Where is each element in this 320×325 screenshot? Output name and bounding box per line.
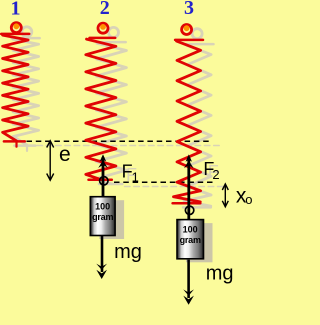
shadow spring 1 bbox=[22, 27, 32, 37]
mass 3 (100 gram) bbox=[177, 220, 204, 259]
x0 extension arrow bbox=[222, 184, 228, 207]
spring 3 coil bbox=[174, 41, 201, 202]
dashed line 2 (spring 2 bottom level) bbox=[114, 181, 216, 183]
F2 arrowhead bbox=[186, 154, 192, 161]
spring 1 bottom bar bbox=[4, 140, 25, 143]
spring 2 hook bbox=[100, 177, 108, 185]
mg arrow 3 head bbox=[183, 296, 194, 305]
spring 1 stub bbox=[15, 141, 17, 146]
spring 3 bbox=[173, 25, 203, 204]
F2 force arrow shaft bbox=[187, 157, 190, 219]
spring 1 orange pin bbox=[13, 23, 19, 29]
spring 3 top bar bbox=[175, 39, 203, 42]
F1 force arrow shaft bbox=[102, 157, 105, 197]
svg-text:gram: gram bbox=[92, 212, 113, 222]
spring 2 coil bbox=[86, 39, 116, 180]
svg-text:mg: mg bbox=[206, 262, 234, 284]
mass 2 (100 gram) bbox=[90, 197, 115, 236]
spring 2 orange pin bbox=[100, 24, 106, 30]
svg-text:1: 1 bbox=[132, 170, 139, 185]
mg arrow 2 head bbox=[96, 270, 107, 279]
svg-text:gram: gram bbox=[180, 235, 201, 245]
svg-text:2: 2 bbox=[100, 0, 110, 19]
shadow group (drop shadows of springs, bars, dashes, masses) bbox=[12, 27, 226, 208]
spring 2 top ring bbox=[98, 23, 108, 33]
mg arrow 2 shaft bbox=[101, 236, 104, 273]
mg arrow 3 shaft bbox=[187, 260, 190, 298]
spring 2 bottom bar bbox=[89, 179, 112, 182]
shadow dashed line 2 bbox=[125, 186, 227, 188]
shadow spring 3 bbox=[192, 29, 202, 39]
shadow dashed line 1 bbox=[37, 145, 222, 147]
e extension arrow bbox=[47, 141, 54, 180]
spring 2 bbox=[86, 23, 116, 180]
shadow spring 2 bbox=[109, 27, 119, 37]
svg-text:e: e bbox=[59, 143, 71, 166]
shadow mass 3 bbox=[186, 223, 213, 262]
spring 3 orange pin bbox=[184, 25, 190, 31]
spring 1 coil bbox=[3, 35, 29, 141]
spring 1 bbox=[1, 23, 29, 147]
shadow mass 2 bbox=[99, 200, 124, 239]
svg-text:2: 2 bbox=[212, 167, 219, 182]
svg-text:100: 100 bbox=[183, 225, 198, 235]
spring 2 top bar bbox=[90, 37, 116, 40]
svg-text:3: 3 bbox=[184, 0, 194, 19]
spring 1 top bar bbox=[1, 33, 29, 36]
spring 1 top ring bbox=[11, 23, 21, 33]
F1 arrowhead bbox=[100, 154, 106, 161]
svg-text:1: 1 bbox=[11, 0, 21, 19]
svg-text:o: o bbox=[245, 192, 252, 207]
spring 3 hook bbox=[185, 206, 193, 214]
svg-text:mg: mg bbox=[114, 241, 142, 263]
spring 3 bottom bar bbox=[173, 202, 201, 205]
spring 3 top ring bbox=[182, 25, 192, 35]
dashed line 1 (unstretched level) bbox=[27, 140, 212, 142]
svg-text:100: 100 bbox=[95, 202, 110, 212]
